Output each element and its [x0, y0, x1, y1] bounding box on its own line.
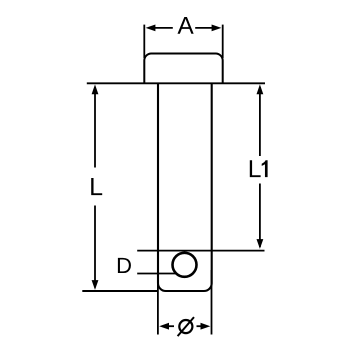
- label diameter symbol: [179, 320, 192, 333]
- A dimension right arrow: [195, 25, 221, 32]
- L1 bottom arrow: [257, 239, 264, 249]
- diameter right extension line: [211, 270, 213, 335]
- diameter left extension line: [157, 270, 159, 335]
- pin shaft: [158, 83, 212, 291]
- pin head: [144, 54, 222, 84]
- A right extension line: [222, 25, 224, 58]
- L dimension line: [94, 87, 96, 288]
- L bottom extension line: [82, 290, 158, 292]
- L1 dimension line: [259, 87, 261, 247]
- head bottom extension line (L / L1 datum): [87, 82, 265, 84]
- A left extension line: [143, 25, 145, 58]
- diameter dimension left arrow: [159, 323, 174, 330]
- A dimension left arrow: [146, 25, 173, 32]
- D leader top line / L1 bottom extension: [137, 250, 264, 252]
- label D: [118, 258, 131, 273]
- diameter dimension right arrow: [197, 323, 211, 330]
- L1 top arrow: [257, 84, 264, 94]
- label L1: [250, 160, 261, 177]
- label L: [91, 178, 102, 195]
- D leader bottom line: [137, 273, 177, 275]
- L top arrow: [92, 84, 99, 94]
- L bottom arrow: [92, 280, 99, 290]
- hole: [173, 253, 197, 277]
- label A: [178, 17, 194, 34]
